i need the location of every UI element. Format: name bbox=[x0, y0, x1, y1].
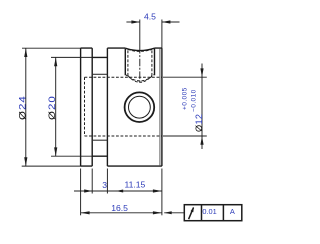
svg-text:0.01: 0.01 bbox=[202, 207, 216, 216]
svg-text:Ø20: Ø20 bbox=[48, 95, 58, 120]
svg-text:A: A bbox=[230, 207, 235, 216]
svg-text:11.15: 11.15 bbox=[124, 180, 145, 190]
svg-text:Ø24: Ø24 bbox=[18, 95, 28, 120]
svg-text:3: 3 bbox=[102, 180, 107, 190]
svg-text:16.5: 16.5 bbox=[111, 203, 128, 213]
svg-text:4.5: 4.5 bbox=[144, 12, 156, 22]
svg-text:+0.005: +0.005 bbox=[182, 87, 189, 110]
svg-text:Ø12: Ø12 bbox=[194, 114, 204, 132]
svg-text:−0.010: −0.010 bbox=[190, 89, 197, 112]
